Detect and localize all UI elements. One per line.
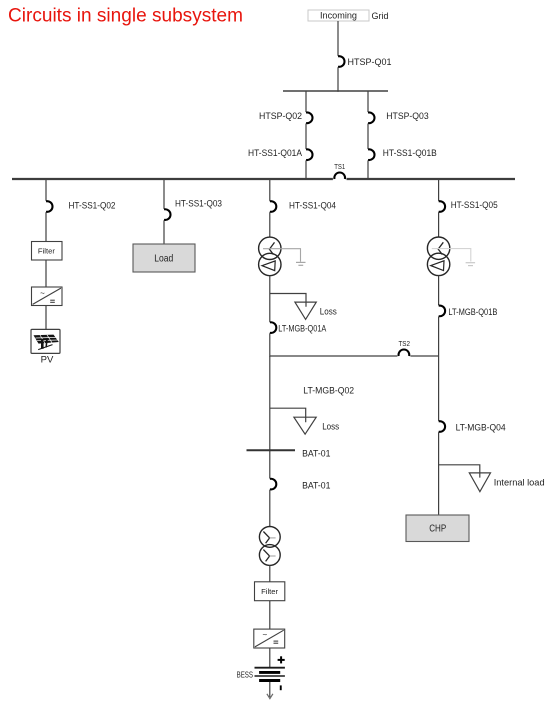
wire right drop 1 (438, 179, 440, 201)
svg-text:HT-SS1-Q05: HT-SS1-Q05 (451, 200, 498, 210)
svg-text:TS2: TS2 (398, 339, 410, 348)
svg-text:HTSP-Q02: HTSP-Q02 (259, 111, 302, 121)
main bus left part (12, 178, 333, 180)
label plus terminal (278, 656, 285, 663)
transformer T3 secondary circle (259, 545, 280, 566)
wire center drop 2 (269, 212, 271, 237)
transformer T2 ground tail (432, 249, 475, 266)
wire right riser segment 3 (367, 161, 369, 181)
breaker HT-SS1-Q05 (439, 201, 445, 212)
filter box BESS (255, 582, 285, 601)
battery BESS plate 4 (259, 679, 280, 682)
breaker HTSP-Q02 (306, 112, 313, 123)
transformer T2 secondary circle (427, 253, 449, 275)
svg-text:HT-SS1-Q01A: HT-SS1-Q01A (248, 148, 303, 158)
svg-text:HTSP-Q01: HTSP-Q01 (348, 57, 392, 67)
transformer T2 wye chevron (438, 242, 443, 254)
battery disconnect bar BAT-01 (247, 449, 296, 451)
svg-text:Incoming: Incoming (320, 11, 357, 21)
breaker HT-SS1-Q03 (164, 209, 170, 220)
svg-text:Grid: Grid (372, 11, 389, 22)
wire right drop 3 (438, 276, 440, 306)
wire center drop 3 (269, 276, 271, 322)
svg-text:HT-SS1-Q04: HT-SS1-Q04 (289, 200, 336, 210)
TS2 bus left part (270, 355, 398, 357)
svg-text:LT-MGB-Q01B: LT-MGB-Q01B (448, 307, 497, 317)
transformer T2 delta (431, 261, 444, 271)
svg-text:~: ~ (262, 630, 267, 639)
loss arrow 1 (295, 302, 316, 319)
wire PV drop 1 (45, 179, 47, 201)
breaker HT-SS1-Q01A (306, 149, 313, 160)
svg-text:Filter: Filter (261, 587, 279, 596)
wire load drop 2 (163, 220, 165, 244)
wire right drop 5 (438, 432, 440, 515)
svg-text:HT-SS1-Q03: HT-SS1-Q03 (175, 198, 222, 208)
wire left riser segment 1 (305, 91, 307, 112)
svg-text:LT-MGB-Q02: LT-MGB-Q02 (303, 385, 354, 395)
wire loss1 branch (270, 294, 306, 307)
wire loss2 branch (270, 408, 306, 422)
svg-text:BAT-01: BAT-01 (302, 480, 330, 490)
svg-text:Circuits in single subsystem: Circuits in single subsystem (8, 5, 243, 27)
breaker TS1 (334, 172, 345, 179)
transformer T1 secondary circle (259, 253, 281, 275)
svg-text:~: ~ (40, 289, 45, 298)
wire bess drop 2 (269, 601, 271, 629)
transformer T1 ground tail (263, 249, 306, 266)
transformer T1 delta (262, 261, 275, 271)
breaker HT-SS1-Q01B (368, 149, 375, 160)
main bus right part (347, 178, 516, 180)
filter box PV (32, 242, 63, 261)
wire PV drop 4 (45, 306, 47, 330)
svg-text:Loss: Loss (320, 306, 337, 316)
TS2 bus right part (411, 355, 439, 357)
internal load arrow (469, 473, 490, 492)
svg-text:LT-MGB-Q04: LT-MGB-Q04 (456, 422, 506, 432)
load box (133, 244, 195, 272)
wire center drop 6 (269, 490, 271, 527)
battery BESS plate 2 (259, 671, 280, 674)
breaker HT-SS1-Q02 (46, 201, 52, 212)
transformer T3 primary wye (263, 532, 275, 544)
svg-text:LT-MGB-Q01A: LT-MGB-Q01A (278, 323, 327, 333)
wire right drop 4 (438, 317, 440, 421)
incoming box (308, 10, 369, 21)
CHP box (406, 515, 469, 542)
wire right riser segment 1 (367, 91, 369, 112)
arrow battery discharge (267, 694, 273, 699)
svg-text:Filter: Filter (38, 247, 56, 256)
battery BESS plate 3 (255, 675, 285, 677)
transformer T3 primary circle (259, 527, 280, 548)
wire TS1 header (283, 90, 388, 92)
breaker HT-SS1-Q04 (270, 201, 276, 212)
wire bess drop 3 (269, 648, 271, 668)
wire center drop 4 (269, 333, 271, 356)
svg-text:HT-SS1-Q01B: HT-SS1-Q01B (383, 148, 437, 158)
label minus terminal (280, 685, 282, 690)
svg-text:Loss: Loss (322, 421, 339, 431)
svg-text:Load: Load (154, 252, 173, 264)
breaker BAT-01 (270, 479, 277, 490)
wire center drop 5 (269, 356, 271, 478)
wire bess drop 4 (269, 682, 271, 697)
wire right riser segment 2 (367, 124, 369, 149)
svg-text:HTSP-Q03: HTSP-Q03 (386, 111, 428, 121)
wire load drop 1 (163, 179, 165, 209)
wire PV drop 3 (45, 260, 47, 287)
wire grid feed upper (337, 21, 339, 56)
inverter PV (32, 287, 63, 306)
transformer T2 primary circle (427, 237, 449, 259)
wire right drop 2 (438, 212, 440, 237)
svg-text:BAT-01: BAT-01 (302, 448, 330, 458)
transformer T1 wye chevron (269, 242, 274, 254)
wire PV drop 2 (45, 212, 47, 241)
PV box (31, 329, 60, 353)
breaker LT-MGB-Q01B (439, 306, 446, 317)
wire left riser segment 3 (305, 161, 307, 181)
breaker HTSP-Q03 (368, 112, 375, 123)
loss arrow 2 (294, 417, 316, 434)
transformer T1 primary circle (259, 237, 281, 259)
inverter BESS (254, 629, 285, 648)
battery BESS plate 1 (255, 667, 285, 669)
transformer T3 secondary wye (263, 550, 275, 562)
svg-text:PV: PV (41, 355, 54, 366)
wire center drop 1 (269, 179, 271, 201)
breaker LT-MGB-Q04 (439, 421, 446, 432)
wire left riser segment 2 (305, 124, 307, 149)
breaker HTSP-Q01 (338, 56, 345, 67)
wire internal load branch (439, 465, 480, 478)
svg-text:BESS: BESS (237, 669, 254, 679)
svg-text:CHP: CHP (429, 523, 446, 534)
wire bess drop 1 (269, 565, 271, 581)
wire grid feed lower (337, 67, 339, 92)
svg-text:Internal load: Internal load (494, 478, 545, 488)
breaker LT-MGB-Q01A (270, 322, 277, 333)
svg-text:HT-SS1-Q02: HT-SS1-Q02 (69, 200, 116, 210)
breaker TS2 (399, 349, 410, 356)
svg-text:TS1: TS1 (334, 162, 345, 171)
